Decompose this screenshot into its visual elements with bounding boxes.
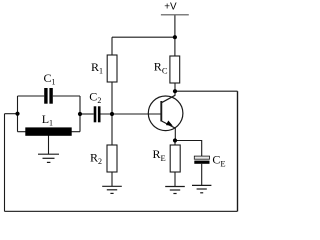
ground under RE <box>165 187 185 194</box>
capacitor C2 <box>94 106 101 122</box>
ground under R2 <box>102 186 122 193</box>
power terminal bar +V <box>161 14 189 16</box>
wire R1 bottom through base node to R2 top <box>111 82 113 145</box>
wire R2 to ground <box>111 172 113 186</box>
svg-text:+V: +V <box>164 2 177 13</box>
wire emitter node to RE top <box>174 141 176 146</box>
wire tank right vertical <box>79 96 81 132</box>
wire base: C2 to transistor base <box>100 113 161 115</box>
ground under CE <box>192 185 211 192</box>
wire feedback right vertical <box>237 91 239 211</box>
wire feedback bottom <box>5 210 238 212</box>
wire RE to ground <box>174 172 176 186</box>
capacitor CE bottom plate <box>194 161 209 164</box>
capacitor CE top plate <box>194 156 209 159</box>
node tank left tap <box>15 112 19 116</box>
wire emitter vertical <box>174 128 176 141</box>
resistor R2 <box>107 145 117 172</box>
wire L1 row left <box>18 131 26 133</box>
inductor L1 <box>25 127 71 135</box>
wire L1 to ground <box>48 136 50 155</box>
transistor emitter arrow <box>166 121 173 126</box>
wire emitter node to CE <box>175 141 202 157</box>
ground under L1 <box>38 154 59 162</box>
node rail junction <box>173 35 177 39</box>
wire tank left vertical <box>17 96 19 132</box>
transistor Q1 <box>148 95 183 130</box>
wire tank right node to C2 left plate <box>80 113 94 115</box>
node emitter <box>173 138 177 142</box>
wire L1 row right <box>72 131 81 133</box>
wire collector feedback horizontal <box>175 90 238 92</box>
wire feedback left vertical <box>4 114 6 212</box>
wire tank top left segment <box>18 95 45 97</box>
capacitor C1 <box>44 88 53 104</box>
wire CE to ground <box>201 164 203 186</box>
node base <box>110 112 114 116</box>
wire tank top right segment <box>53 95 80 97</box>
wire RC bottom to collector <box>174 83 176 95</box>
resistor RC <box>170 56 180 83</box>
resistor R1 <box>107 55 117 82</box>
wire feedback tap <box>5 113 18 115</box>
node collector <box>173 89 177 93</box>
wire supply rail <box>112 36 175 38</box>
wire +V down to RC top <box>174 15 176 56</box>
node tank right <box>78 112 82 116</box>
resistor RE <box>170 145 180 172</box>
wire rail down to R1 top <box>111 37 113 55</box>
